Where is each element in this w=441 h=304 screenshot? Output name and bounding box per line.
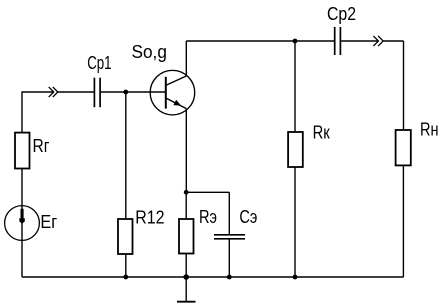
svg-text:Rэ: Rэ <box>199 206 217 227</box>
svg-text:R12: R12 <box>135 206 164 227</box>
svg-text:Rг: Rг <box>33 135 50 156</box>
svg-text:Cp2: Cp2 <box>327 3 356 24</box>
svg-text:Rк: Rк <box>313 122 331 143</box>
svg-text:Rн: Rн <box>420 119 439 140</box>
svg-text:Eг: Eг <box>40 211 57 232</box>
svg-text:Cp1: Cp1 <box>87 52 111 73</box>
svg-text:So,g: So,g <box>132 41 167 62</box>
svg-text:Сэ: Сэ <box>239 206 257 227</box>
